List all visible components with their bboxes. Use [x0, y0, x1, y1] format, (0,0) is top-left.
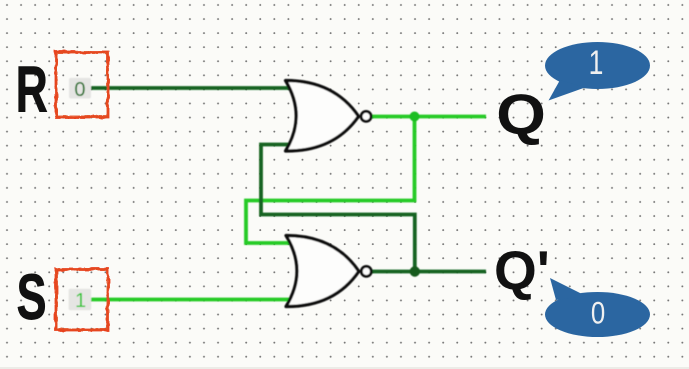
annotation box around switch R (red sketchy rectangle): [56, 52, 108, 117]
toggle switch S (value 1): [69, 289, 92, 312]
annotation box around switch S (red sketchy rectangle): [56, 269, 108, 330]
wire: R input net (logic 0, dark green) from switch R to NOR U1 input A: [89, 86, 293, 90]
svg-text:Q': Q': [494, 239, 550, 301]
NOR gate U2 (bottom) body: [286, 236, 371, 307]
wire: Q net (logic 1, bright green) from U1 output to label Q: [371, 115, 486, 119]
callout bubble: Q = 1: [545, 42, 650, 101]
svg-text:0: 0: [74, 79, 85, 101]
bottom edge strip: [0, 367, 689, 369]
wire: Q' feedback (dark green) from node N2 up/left to U1 input B: [261, 145, 415, 272]
NOR gate U1 (top) body: [286, 81, 372, 152]
callout bubble: Q' = 0: [545, 278, 650, 337]
svg-text:1: 1: [589, 44, 604, 82]
U1 output inversion bubble: [361, 111, 371, 121]
wire: Q' net (logic 0, dark green) from U2 output to label Q': [372, 270, 486, 274]
svg-text:0: 0: [591, 296, 605, 331]
svg-text:Q: Q: [496, 82, 546, 146]
wire: Q feedback (bright green) from node N1 down/left to U2 input A: [246, 117, 415, 244]
node N1: junction on Q net: [410, 112, 420, 122]
svg-text:R: R: [16, 53, 48, 126]
node N2: junction on Q' net: [410, 266, 420, 276]
svg-text:1: 1: [75, 290, 86, 312]
toggle switch R (value 0): [69, 78, 91, 101]
svg-text:S: S: [17, 261, 47, 333]
U2 output inversion bubble: [361, 266, 371, 276]
wire: S input net (logic 1, bright green) from switch S to NOR U2 input B: [89, 298, 293, 302]
